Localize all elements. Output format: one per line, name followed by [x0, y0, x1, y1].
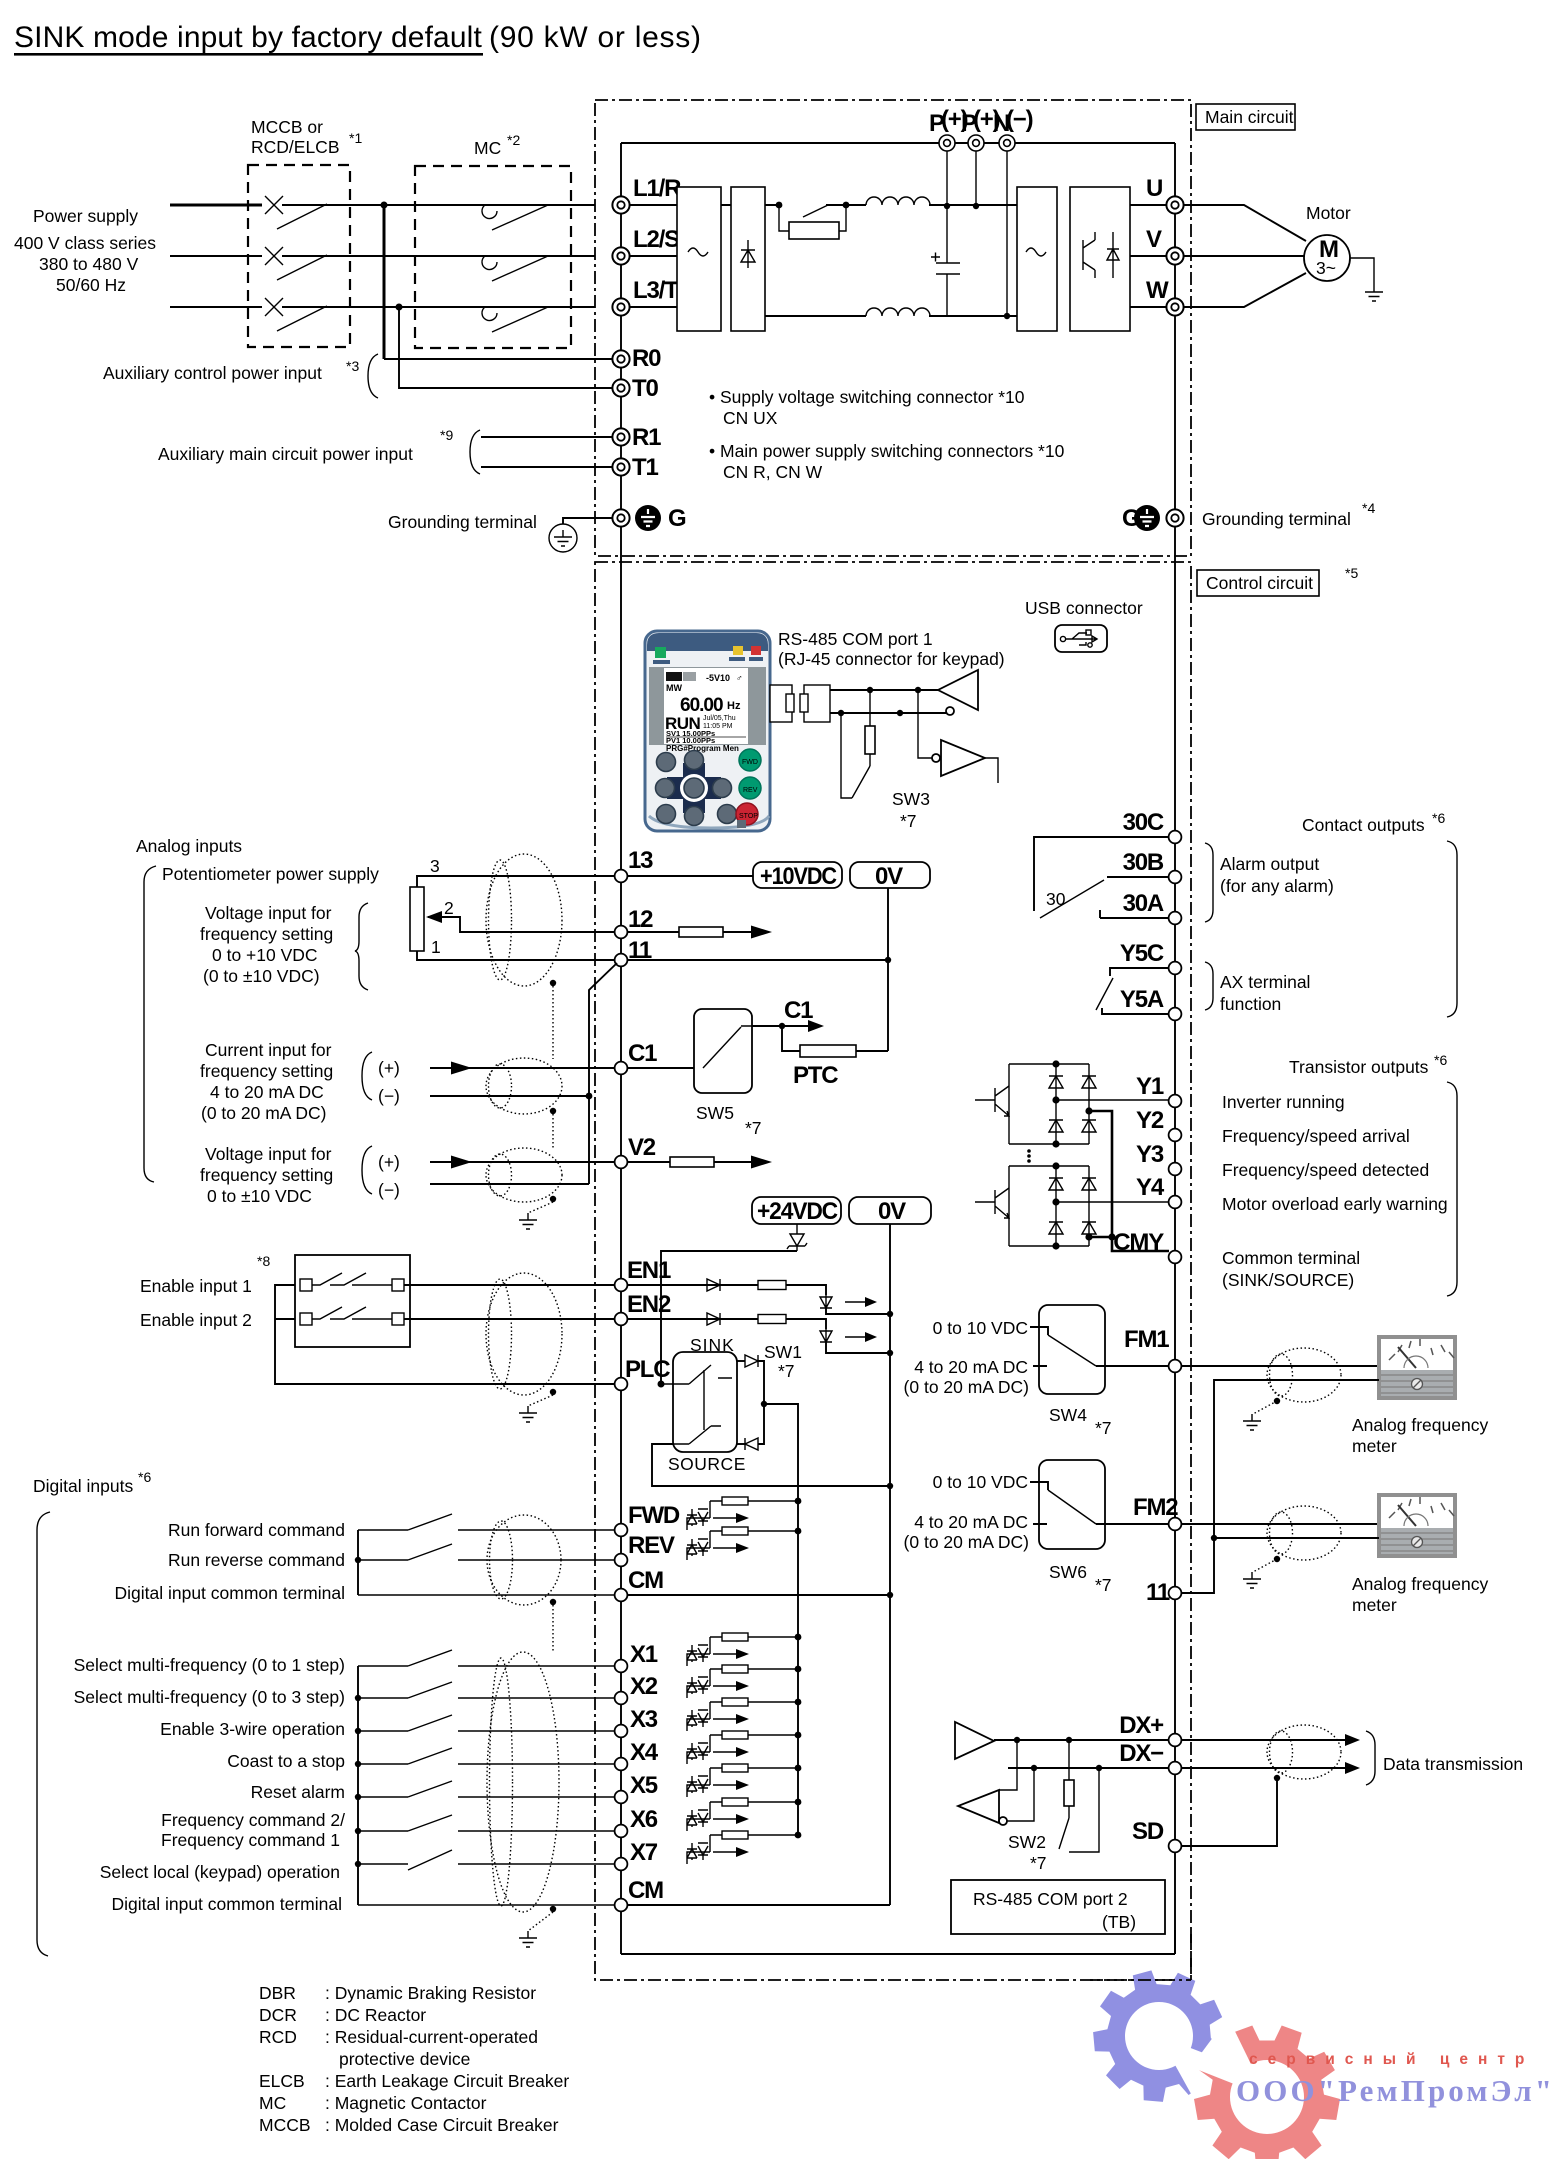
+24 bus digital — [797, 1503, 799, 1837]
label voltage input 1 — [200, 903, 333, 986]
svg-text:Alarm output: Alarm output — [1220, 854, 1319, 874]
terminal CM — [615, 1589, 628, 1602]
svg-text:Auxiliary control power input: Auxiliary control power input — [103, 363, 322, 383]
svg-text:Inverter running: Inverter running — [1222, 1092, 1345, 1112]
wire Y1 — [1056, 1099, 1169, 1101]
terminal 30B — [1169, 871, 1182, 884]
bracket alarm — [1205, 843, 1213, 922]
0V rail lower — [889, 1224, 891, 1905]
breaker pole 2 — [265, 247, 327, 280]
svg-text:Y4: Y4 — [1136, 1174, 1165, 1201]
RJ45 connector jack — [800, 685, 830, 722]
EN2 arrow — [845, 1336, 871, 1338]
opto input REV — [687, 1527, 801, 1560]
svg-text:(0 to 20 mA DC): (0 to 20 mA DC) — [904, 1377, 1029, 1397]
wire pot top to 13 — [417, 876, 615, 887]
svg-text:frequency setting: frequency setting — [200, 924, 333, 944]
svg-text:30C: 30C — [1123, 809, 1164, 836]
EN1 opto LED — [820, 1295, 832, 1309]
svg-text:DX−: DX− — [1119, 1740, 1164, 1767]
bracket data transmission — [1366, 1731, 1375, 1785]
terminal R1 — [612, 428, 629, 445]
terminal G right — [1166, 509, 1183, 526]
wire T0 tap — [399, 307, 612, 388]
big bracket analog — [144, 866, 156, 1182]
terminal FWD — [615, 1524, 628, 1537]
keypad nav cross — [667, 763, 721, 813]
svg-text:3: 3 — [430, 856, 440, 876]
wire SW5 to C1 out — [752, 1025, 782, 1027]
terminal X7 — [615, 1858, 628, 1871]
DC reactor top (inductor) — [866, 197, 930, 205]
wire L2 into converter — [630, 255, 677, 257]
control circuit dash-dot box — [595, 562, 1191, 1980]
terminal G left — [612, 509, 629, 526]
ground EN shield — [519, 1406, 537, 1422]
svg-text:function: function — [1220, 994, 1281, 1014]
wire C1 minus — [430, 1095, 589, 1097]
bracket aux control — [368, 354, 378, 398]
PTC resistor — [782, 1026, 800, 1051]
terminal PLC — [615, 1378, 628, 1391]
motor M — [1304, 235, 1350, 281]
svg-text:L1/R: L1/R — [633, 175, 681, 202]
wire 11 meter return — [1181, 1380, 1379, 1593]
terminal L2/S — [612, 247, 629, 264]
DC bus bottom wire — [765, 315, 1017, 317]
bracket contact outputs — [1447, 841, 1457, 1017]
switch SW6 box — [1039, 1460, 1105, 1549]
svg-text:Motor: Motor — [1306, 203, 1351, 223]
svg-text:ELCB: ELCB — [259, 2071, 305, 2091]
svg-text:*7: *7 — [1095, 1575, 1112, 1595]
ground FM2 shield — [1243, 1572, 1261, 1588]
terminal 11 right — [1169, 1587, 1182, 1600]
Main circuit label box — [1196, 104, 1295, 130]
junction dots COM1 — [867, 687, 873, 693]
wire 11 to 0V rail — [627, 959, 888, 961]
terminal 11 — [615, 954, 628, 967]
svg-text:SD: SD — [1132, 1818, 1164, 1845]
svg-text:V: V — [1146, 226, 1162, 253]
svg-text:*2: *2 — [507, 132, 520, 148]
svg-text:meter: meter — [1352, 1436, 1397, 1456]
svg-text:SW5: SW5 — [696, 1103, 734, 1123]
svg-text:X3: X3 — [630, 1706, 658, 1733]
contactor pole 1 — [482, 205, 548, 230]
svg-text:R1: R1 — [632, 424, 661, 451]
EN2 resistor — [758, 1315, 786, 1324]
0V box (lower) — [849, 1197, 931, 1225]
photocoupler array A — [975, 1060, 1096, 1147]
svg-text:SOURCE: SOURCE — [668, 1454, 746, 1474]
svg-text:Frequency/speed detected: Frequency/speed detected — [1222, 1160, 1429, 1180]
svg-text:Frequency command 1: Frequency command 1 — [161, 1830, 340, 1850]
svg-text:*6: *6 — [138, 1469, 151, 1485]
wire DX+ — [994, 1739, 1169, 1741]
svg-text:• Supply voltage switching con: • Supply voltage switching connector *10 — [709, 387, 1025, 407]
wire 12 resistor and arrow — [627, 931, 752, 933]
Control circuit label box — [1197, 565, 1358, 596]
terminal P1 — [939, 135, 955, 151]
wire X5 + switch — [358, 1781, 615, 1797]
wire 13 to +10VDC — [627, 875, 753, 877]
wire W — [1130, 306, 1166, 308]
terminal CMY — [1169, 1251, 1182, 1264]
svg-text:G: G — [1122, 505, 1140, 532]
wire T1 — [481, 466, 612, 468]
relay Y5 contact — [1102, 968, 1169, 1014]
keypad buttons — [656, 751, 737, 826]
opto input FWD — [687, 1497, 801, 1530]
svg-text:X4: X4 — [630, 1739, 659, 1766]
terminating resistor DX — [1068, 1740, 1070, 1780]
svg-text:4 to 20 mA DC: 4 to 20 mA DC — [914, 1357, 1028, 1377]
DC bus top wire — [630, 204, 1017, 206]
svg-text:0 to +10 VDC: 0 to +10 VDC — [212, 945, 318, 965]
wire DX+ ext arrow — [1181, 1739, 1348, 1741]
shield V2 — [486, 1148, 562, 1202]
earth circle symbol left — [549, 524, 577, 552]
wire RS485 A — [830, 689, 938, 691]
svg-text:V2: V2 — [628, 1134, 656, 1161]
wire V2 resistor arrow — [627, 1161, 752, 1163]
svg-text:(−): (−) — [1006, 106, 1033, 133]
ground analog shield — [519, 1213, 537, 1229]
svg-text:(TB): (TB) — [1102, 1912, 1136, 1932]
svg-text:30A: 30A — [1123, 890, 1164, 917]
dash-dot redraw over logo — [1090, 1930, 1191, 1980]
opto input X3 — [687, 1698, 801, 1731]
svg-text:MCCB: MCCB — [259, 2115, 311, 2135]
label voltage input 2 — [200, 1144, 333, 1206]
bracket current plus — [362, 1052, 372, 1100]
svg-text:Digital inputs: Digital inputs — [33, 1476, 133, 1496]
wire driver out — [985, 758, 998, 783]
shield analog 1 — [486, 854, 562, 986]
svg-text:(+): (+) — [378, 1152, 400, 1172]
main circuit dash-dot box — [595, 100, 1191, 556]
keypad warn/alarm LEDs — [733, 646, 743, 655]
svg-text:RCD: RCD — [259, 2027, 297, 2047]
wire X2 + switch — [358, 1682, 615, 1698]
DC reactor bottom (inductor) — [866, 308, 930, 316]
svg-text:USB connector: USB connector — [1025, 598, 1143, 618]
wire R0 tap — [383, 205, 386, 359]
svg-text:*8: *8 — [257, 1253, 270, 1269]
svg-text:Analog inputs: Analog inputs — [136, 836, 242, 856]
SW1 bottom diode — [737, 1443, 745, 1445]
svg-text:X2: X2 — [630, 1673, 658, 1700]
junction dot aux T0 tap — [396, 304, 403, 311]
PE symbol left — [635, 505, 661, 531]
svg-text:C1: C1 — [784, 997, 813, 1024]
interlock contacts EN1 — [300, 1273, 404, 1291]
svg-text:(90 kW or less): (90 kW or less) — [489, 21, 701, 54]
svg-text:2: 2 — [444, 898, 454, 918]
svg-text:0 to 10 VDC: 0 to 10 VDC — [933, 1318, 1028, 1338]
svg-text:*6: *6 — [1434, 1052, 1447, 1068]
svg-text:-5V10: -5V10 — [706, 673, 730, 683]
svg-text:Auxiliary main circuit power i: Auxiliary main circuit power input — [158, 444, 413, 464]
blue gear — [1093, 1970, 1225, 2101]
wire EN2 — [404, 1318, 615, 1320]
svg-text:*3: *3 — [346, 358, 359, 374]
terminal FM2 — [1169, 1518, 1182, 1531]
relay 30 contact — [1034, 837, 1169, 918]
svg-text:Enable input 2: Enable input 2 — [140, 1310, 252, 1330]
POWER SUPPLY TEXT — [14, 206, 156, 295]
motor ground — [1350, 258, 1374, 285]
svg-text:DCR: DCR — [259, 2005, 297, 2025]
svg-text:Common terminal: Common terminal — [1222, 1248, 1360, 1268]
wire CM — [358, 1594, 615, 1596]
inner solid boundary: top line — [621, 142, 1175, 144]
svg-text:CM: CM — [628, 1567, 663, 1594]
wire V2 minus — [430, 1183, 589, 1185]
svg-text:FWD: FWD — [742, 759, 758, 766]
svg-text:Jul/05,Thu: Jul/05,Thu — [703, 715, 736, 722]
wire DX- ext arrow — [1181, 1767, 1348, 1769]
svg-text:*5: *5 — [1345, 565, 1358, 581]
svg-text:*7: *7 — [745, 1118, 762, 1138]
terminal EN2 — [615, 1313, 628, 1326]
wire CM to 0V — [627, 1594, 890, 1596]
svg-text:Analog frequency: Analog frequency — [1352, 1415, 1488, 1435]
svg-text:400 V class series: 400 V class series — [14, 233, 156, 253]
title underline — [14, 53, 483, 56]
svg-text:Potentiometer power supply: Potentiometer power supply — [162, 864, 379, 884]
svg-text:12: 12 — [628, 906, 653, 933]
svg-text:0V: 0V — [878, 1198, 906, 1225]
shield FM2 — [1267, 1506, 1341, 1560]
svg-text:: Dynamic Braking Resistor: : Dynamic Braking Resistor — [325, 1983, 536, 2003]
switch SW3 — [841, 713, 870, 798]
svg-text:RS-485 COM port 2: RS-485 COM port 2 — [973, 1889, 1128, 1909]
svg-text:Grounding terminal: Grounding terminal — [388, 512, 537, 532]
opto input X1 — [687, 1633, 801, 1666]
svg-text:Hz: Hz — [727, 700, 741, 712]
red gear — [1194, 2026, 1340, 2159]
svg-text:(−): (−) — [378, 1086, 400, 1106]
wire ground left — [563, 518, 612, 524]
terminal P2 — [968, 135, 984, 151]
shield C1 — [486, 1058, 562, 1114]
SW1 top diode — [737, 1360, 745, 1362]
terminal 12 — [615, 926, 628, 939]
svg-text:CN R, CN W: CN R, CN W — [723, 462, 823, 482]
svg-text:REV: REV — [743, 787, 758, 794]
svg-text:Y2: Y2 — [1136, 1107, 1164, 1134]
FWD/REV/CM feeder — [357, 1530, 359, 1595]
terminal X6 — [615, 1825, 628, 1838]
svg-text:30: 30 — [1046, 889, 1066, 909]
EN1 diode — [627, 1284, 758, 1286]
terminal 13 — [615, 870, 628, 883]
svg-text:Analog frequency: Analog frequency — [1352, 1574, 1488, 1594]
svg-text:Y5C: Y5C — [1120, 940, 1164, 967]
wire pot bottom to 11 — [417, 951, 615, 960]
terminating resistor COM1 — [869, 690, 871, 726]
terminal X3 — [615, 1725, 628, 1738]
terminal T0 — [612, 379, 629, 396]
opto input X4 — [687, 1731, 801, 1764]
ground digital shield — [519, 1931, 537, 1947]
svg-text:MW: MW — [666, 683, 682, 693]
svg-text:0V: 0V — [875, 863, 903, 890]
wire U — [1130, 204, 1166, 206]
receiver buffer U1 — [938, 670, 978, 710]
wire P2 down — [975, 151, 977, 206]
zener diode D1 — [787, 1224, 807, 1251]
svg-text:*7: *7 — [1030, 1853, 1047, 1873]
shield drain 1 — [550, 980, 556, 986]
converter block 1 — [677, 187, 721, 331]
wire RS485 B — [830, 712, 946, 714]
opto input X6 — [687, 1798, 801, 1831]
terminal FM1 — [1169, 1360, 1182, 1373]
IGBT block — [1070, 187, 1130, 331]
terminal Y5C — [1169, 962, 1182, 975]
svg-text:MCCB or: MCCB or — [251, 117, 323, 137]
svg-text:*9: *9 — [440, 427, 453, 443]
EN1 arrow — [845, 1301, 871, 1303]
terminal C1 — [615, 1062, 628, 1075]
svg-text:SINK mode input by factory def: SINK mode input by factory default — [14, 21, 482, 54]
svg-text:X7: X7 — [630, 1839, 658, 1866]
terminal U — [1166, 196, 1183, 213]
wire R1 — [481, 436, 612, 438]
wire N down — [1006, 151, 1008, 316]
svg-text:AX terminal: AX terminal — [1220, 972, 1310, 992]
shield DX — [1267, 1725, 1341, 1779]
opto input X5 — [687, 1764, 801, 1797]
junction dot aux R0 tap — [381, 202, 388, 209]
svg-text:REV: REV — [628, 1532, 675, 1559]
shield EN — [486, 1273, 562, 1395]
terminal REV — [615, 1554, 628, 1567]
svg-text:protective device: protective device — [339, 2049, 470, 2069]
svg-text:SW3: SW3 — [892, 789, 930, 809]
terminal V2 — [615, 1156, 628, 1169]
terminal 30C — [1169, 831, 1182, 844]
svg-text:(+): (+) — [378, 1058, 400, 1078]
braking chopper switch — [776, 202, 783, 209]
svg-text:RS-485 COM port 1: RS-485 COM port 1 — [778, 629, 933, 649]
meter FM2 — [1379, 1495, 1455, 1556]
svg-text:T1: T1 — [632, 454, 658, 481]
smoothing capacitor — [931, 206, 960, 316]
wire CMY common — [1089, 1111, 1169, 1251]
keypad body — [645, 631, 770, 831]
svg-text:1: 1 — [431, 937, 441, 957]
svg-text:DBR: DBR — [259, 1983, 296, 2003]
wire X3 + switch — [358, 1715, 615, 1731]
svg-text:R0: R0 — [632, 345, 661, 372]
terminal X4 — [615, 1758, 628, 1771]
switch SW2 — [1059, 1768, 1099, 1852]
svg-text:4 to 20 mA DC: 4 to 20 mA DC — [914, 1512, 1028, 1532]
switch SW4 box — [1039, 1305, 1105, 1394]
svg-text:Transistor outputs: Transistor outputs — [1289, 1057, 1429, 1077]
svg-text:Current input for: Current input for — [205, 1040, 332, 1060]
svg-text:meter: meter — [1352, 1595, 1397, 1615]
wire Y4 — [1056, 1201, 1169, 1203]
svg-text:Select multi-frequency (0 to 3: Select multi-frequency (0 to 3 step) — [74, 1687, 345, 1707]
P(+) P(+) N(-) terminals — [929, 106, 1033, 137]
svg-text:MC: MC — [474, 138, 501, 158]
terminal Y3 — [1169, 1163, 1182, 1176]
opto input X2 — [687, 1665, 801, 1698]
svg-text:*7: *7 — [1095, 1418, 1112, 1438]
wire receiver input A — [999, 1740, 1017, 1790]
svg-text:Enable input 1: Enable input 1 — [140, 1276, 252, 1296]
svg-text:Y1: Y1 — [1136, 1073, 1164, 1100]
IGBT symbol — [1083, 232, 1119, 278]
0V box (upper) — [850, 862, 930, 890]
svg-text:FM1: FM1 — [1124, 1326, 1169, 1353]
svg-text:EN1: EN1 — [627, 1257, 671, 1284]
svg-text:Frequency command 2/: Frequency command 2/ — [161, 1810, 345, 1830]
svg-text:11: 11 — [1146, 1579, 1170, 1606]
transistor Q2 — [975, 1188, 1009, 1218]
wire X6 + switch — [358, 1815, 615, 1831]
svg-text:Reset alarm: Reset alarm — [251, 1782, 345, 1802]
svg-text:Data transmission: Data transmission — [1383, 1754, 1523, 1774]
terminal Y1 — [1169, 1095, 1182, 1108]
svg-text:CM: CM — [628, 1877, 663, 1904]
driver buffer U2 — [941, 740, 985, 776]
svg-text:0 to ±10 VDC: 0 to ±10 VDC — [207, 1186, 312, 1206]
inverter block — [1017, 187, 1057, 331]
wire P1 down — [946, 151, 948, 206]
svg-text:: Magnetic Contactor: : Magnetic Contactor — [325, 2093, 487, 2113]
svg-text:MC: MC — [259, 2093, 286, 2113]
svg-text:STOP: STOP — [739, 813, 758, 820]
terminal W — [1166, 298, 1183, 315]
svg-text:X5: X5 — [630, 1772, 658, 1799]
svg-text:3~: 3~ — [1316, 258, 1336, 278]
wire FWD + switch — [358, 1514, 615, 1530]
LCD content — [665, 672, 746, 745]
svg-text:Coast to a stop: Coast to a stop — [227, 1751, 345, 1771]
SW1 sink contact — [661, 1365, 732, 1416]
svg-text:: DC Reactor: : DC Reactor — [325, 2005, 426, 2025]
svg-text:EN2: EN2 — [627, 1291, 671, 1318]
svg-text:FM2: FM2 — [1133, 1494, 1178, 1521]
junction dot C1 minus — [586, 1093, 593, 1100]
driver buffer DX — [955, 1722, 994, 1759]
svg-text:Run forward command: Run forward command — [168, 1520, 345, 1540]
bracket AX — [1205, 962, 1213, 1010]
SW1 box — [673, 1352, 737, 1452]
svg-text:380 to 480 V: 380 to 480 V — [39, 254, 139, 274]
svg-text:: Molded Case Circuit Breaker: : Molded Case Circuit Breaker — [325, 2115, 559, 2135]
terminal L1/R — [612, 196, 629, 213]
transistor Q1 — [975, 1086, 1009, 1116]
X feeder — [357, 1666, 359, 1905]
svg-text:L3/T: L3/T — [633, 277, 679, 304]
dots continuation — [1027, 1149, 1031, 1153]
svg-text:X6: X6 — [630, 1806, 658, 1833]
terminal Y5A — [1169, 1008, 1182, 1021]
svg-text:0 to 10 VDC: 0 to 10 VDC — [933, 1472, 1028, 1492]
terminal T1 — [612, 458, 629, 475]
wire FM2 to meter — [1181, 1523, 1379, 1525]
svg-text:Frequency/speed arrival: Frequency/speed arrival — [1222, 1126, 1410, 1146]
svg-text:(0 to ±10 VDC): (0 to ±10 VDC) — [203, 966, 320, 986]
wire SW1 to +24 bus — [764, 1404, 798, 1503]
